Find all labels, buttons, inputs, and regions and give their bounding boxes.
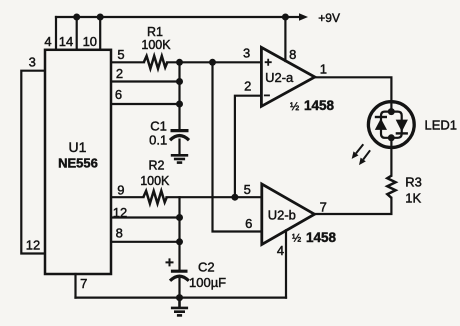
svg-text:1458: 1458: [306, 230, 337, 245]
wire C1 branch vertical: [178, 62, 180, 129]
svg-text:½: ½: [292, 233, 301, 245]
U2-a minus input sign: [264, 94, 270, 96]
svg-text:5: 5: [117, 47, 124, 62]
svg-text:NE556: NE556: [58, 156, 98, 171]
junction dot node C1 top: [176, 59, 183, 66]
svg-text:3: 3: [243, 46, 250, 61]
junction dot U2-a pin8 on rail: [282, 14, 289, 21]
wire R2 to U2-b pin5: [167, 196, 262, 198]
wire U1 pin2 row: [112, 80, 180, 82]
svg-text:3: 3: [29, 55, 36, 70]
svg-text:U2-b: U2-b: [268, 208, 296, 223]
junction dot pin12 row: [176, 214, 183, 221]
svg-text:100K: 100K: [140, 174, 170, 188]
svg-text:0.1: 0.1: [149, 133, 167, 148]
svg-text:1: 1: [320, 62, 327, 77]
ground symbol (C2): [171, 298, 188, 316]
svg-text:R2: R2: [149, 159, 165, 173]
wire C2 branch vertical: [178, 197, 180, 269]
svg-text:12: 12: [26, 237, 40, 252]
wire LED to R3: [390, 138, 392, 176]
wire +9V top rail: [56, 16, 285, 18]
svg-text:U1: U1: [69, 139, 87, 155]
svg-text:6: 6: [245, 216, 252, 231]
U2-a plus input sign: [265, 59, 272, 66]
wire U2-a output pin1 to LED: [315, 77, 392, 111]
svg-text:8: 8: [289, 47, 296, 62]
junction dot pin10 on rail: [97, 14, 104, 21]
wire C2 to bottom rail: [178, 279, 180, 298]
svg-text:100µF: 100µF: [189, 275, 226, 290]
svg-text:LED1: LED1: [425, 118, 458, 133]
wire U2-a pin2 feedback: [235, 96, 262, 198]
LED1 right diode (down): [396, 120, 408, 132]
svg-text:½: ½: [290, 101, 299, 113]
junction dot U2-b pin5 node: [231, 194, 238, 201]
junction dot pin14 on rail: [73, 14, 80, 21]
svg-text:5: 5: [244, 182, 251, 197]
svg-text:+9V: +9V: [318, 11, 340, 25]
svg-text:1K: 1K: [405, 191, 421, 206]
svg-text:14: 14: [59, 34, 73, 49]
wire U1 pin12 row: [112, 216, 180, 218]
svg-text:C2: C2: [198, 260, 215, 275]
svg-text:2: 2: [244, 79, 251, 94]
LED1 top junction dot: [388, 108, 395, 115]
wire U1 pin7 vertical: [74, 274, 76, 298]
wire U2-b pin4 vertical: [285, 230, 287, 297]
svg-text:12: 12: [113, 205, 127, 220]
junction dot node to U2-b pin6: [209, 59, 216, 66]
wire U1 pin3 left loop: [21, 71, 44, 254]
ground symbol (C1): [171, 155, 188, 162]
LED1 light emission arrow upper: [352, 144, 364, 159]
LED1 right branch wire: [391, 112, 401, 138]
junction dot pin6 row: [176, 101, 183, 108]
wire R1 to U2-a pin3: [167, 61, 261, 63]
svg-text:R1: R1: [147, 25, 163, 39]
junction dot pin8 row: [176, 238, 183, 245]
wire U1 pin5 to R1: [112, 61, 145, 63]
svg-text:1458: 1458: [304, 98, 335, 113]
svg-text:4: 4: [44, 34, 51, 49]
wire bottom ground rail: [76, 297, 287, 299]
wire U1 pin8 row: [112, 241, 180, 243]
svg-text:7: 7: [320, 199, 327, 214]
wire node to U2-b pin6: [213, 62, 262, 231]
resistor R1: [144, 56, 168, 69]
svg-text:10: 10: [83, 34, 97, 49]
resistor R2: [143, 191, 167, 204]
LED1 bottom junction dot: [388, 134, 395, 141]
junction dot bottom rail: [176, 294, 183, 301]
LED1 left diode (up): [375, 118, 387, 129]
svg-text:8: 8: [116, 226, 123, 241]
svg-text:R3: R3: [405, 175, 422, 190]
junction dot pin2 row: [176, 78, 183, 85]
op-amp U2-a: [261, 47, 314, 106]
capacitor C1: [170, 131, 189, 155]
op-amp U2-b: [262, 184, 315, 245]
wire pin14 vertical: [76, 17, 78, 49]
wire U2-a pin8 vertical: [284, 17, 286, 61]
svg-text:C1: C1: [150, 119, 167, 134]
svg-text:U2-a: U2-a: [265, 70, 294, 85]
svg-text:2: 2: [116, 66, 123, 81]
svg-text:100K: 100K: [141, 38, 171, 52]
wire U1 pin6 row: [112, 103, 180, 105]
capacitor C2: [170, 271, 189, 281]
+9V arrow: [285, 13, 308, 21]
IC U1 box: [45, 50, 111, 274]
C2 polarity plus sign: [166, 258, 174, 266]
svg-text:7: 7: [80, 276, 87, 291]
svg-text:9: 9: [117, 183, 124, 198]
wire pin10 vertical: [99, 17, 101, 49]
resistor R3: [387, 176, 395, 198]
wire R3 to U2-b output pin7: [315, 198, 392, 214]
LED1 bicolor LED: [368, 102, 414, 148]
svg-text:4: 4: [277, 243, 284, 258]
LED1 light emission arrow lower: [359, 150, 370, 165]
LED1 left branch wire: [381, 112, 391, 138]
wire pin4 vertical: [55, 17, 57, 49]
wire U1 pin9 to R2: [112, 196, 144, 198]
svg-text:6: 6: [115, 87, 122, 102]
LED1 circle: [368, 102, 414, 148]
